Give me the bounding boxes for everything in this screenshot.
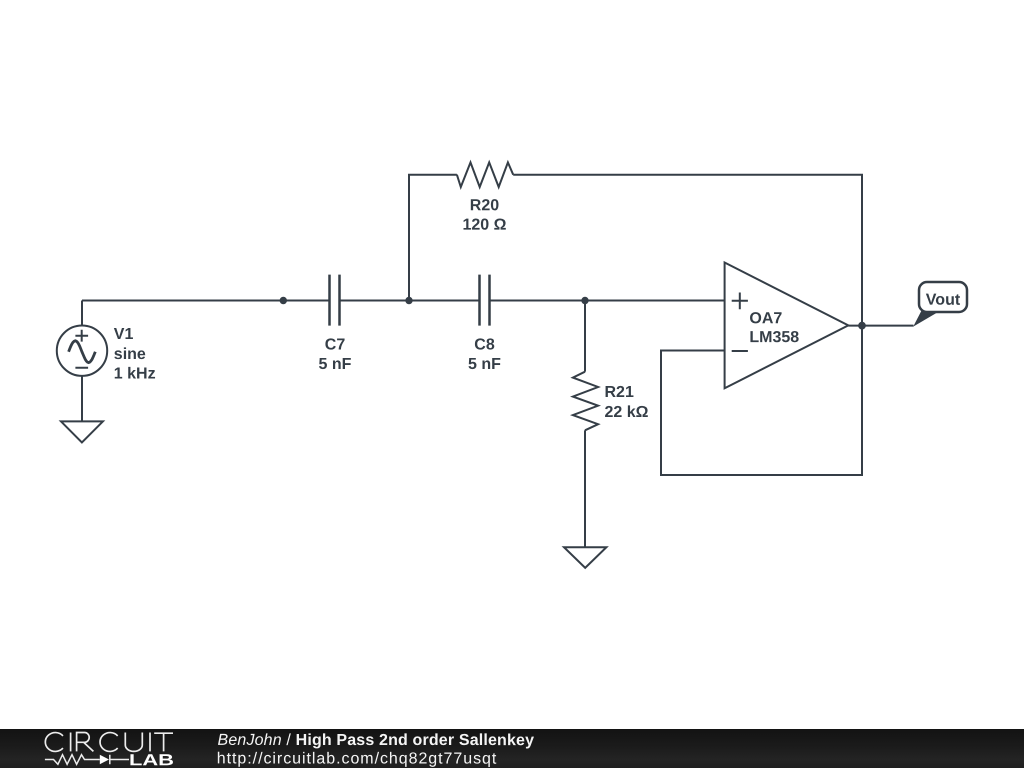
svg-text:R20: R20 xyxy=(470,197,499,214)
svg-text:BenJohn / High Pass 2nd order: BenJohn / High Pass 2nd order Sallenkey xyxy=(217,732,534,749)
svg-text:5 nF: 5 nF xyxy=(319,356,352,373)
svg-text:1 kHz: 1 kHz xyxy=(114,365,156,382)
svg-text:C8: C8 xyxy=(474,336,495,353)
svg-text:LM358: LM358 xyxy=(749,329,799,346)
svg-text:sine: sine xyxy=(114,346,146,363)
svg-text:Vout: Vout xyxy=(926,292,961,309)
svg-text:V1: V1 xyxy=(114,326,134,343)
svg-text:R21: R21 xyxy=(604,384,633,401)
svg-text:22 kΩ: 22 kΩ xyxy=(604,404,648,421)
svg-text:C7: C7 xyxy=(325,336,346,353)
svg-text:http://circuitlab.com/chq82gt7: http://circuitlab.com/chq82gt77usqt xyxy=(217,750,498,767)
svg-text:LAB: LAB xyxy=(129,752,174,768)
svg-text:120 Ω: 120 Ω xyxy=(463,217,507,234)
svg-text:5 nF: 5 nF xyxy=(468,356,501,373)
svg-text:OA7: OA7 xyxy=(749,310,782,327)
